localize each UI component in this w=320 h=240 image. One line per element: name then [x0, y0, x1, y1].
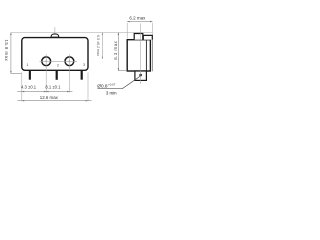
- side centerline: [139, 24, 141, 85]
- terminal hole annotation leader: [97, 76, 140, 89]
- outer thin lip line: [151, 40, 153, 72]
- svg-text:3: 3: [83, 63, 85, 67]
- free-position reference line: [11, 32, 153, 34]
- 6.2 extension left: [126, 23, 128, 39]
- body right edge extension: [87, 72, 89, 101]
- overall height dimension line (left): [11, 33, 22, 74]
- plunger (front view): [51, 34, 59, 37]
- svg-text:12.6 max: 12.6 max: [40, 95, 59, 100]
- switch body (front view): [22, 38, 88, 71]
- tick arrows at 44.3: [44, 91, 46, 93]
- hole 1 center dot: [46, 61, 47, 62]
- mounting hole 2: [65, 57, 74, 66]
- overall width dimension line: [18, 100, 92, 102]
- hole 1 extension line: [45, 54, 47, 92]
- side height dimension: [118, 33, 127, 71]
- terminal hole dot: [139, 74, 142, 77]
- 6.2 extension right: [151, 23, 153, 35]
- hole horizontal centerline: [40, 60, 78, 62]
- svg-text:1: 1: [27, 63, 29, 67]
- side plunger: [134, 34, 143, 40]
- side body: [127, 40, 150, 71]
- body left edge extension: [21, 72, 23, 101]
- svg-text:4.3 ±0.1: 4.3 ±0.1: [21, 85, 37, 90]
- hole spacing dimension line: [17, 91, 72, 93]
- svg-text:3 min: 3 min: [106, 91, 117, 96]
- svg-text:8.1 ±0.1: 8.1 ±0.1: [45, 85, 61, 90]
- svg-text:6.5 ±0.2 max: 6.5 ±0.2 max: [96, 35, 100, 56]
- terminal leg 1: [29, 70, 31, 79]
- svg-text:6.2 max: 6.2 max: [129, 15, 146, 20]
- top ridge: [143, 35, 152, 39]
- svg-text:15.8 max: 15.8 max: [4, 39, 9, 61]
- hole 2 center dot: [69, 61, 70, 62]
- free position dim line: [101, 33, 103, 60]
- dim arrow at 21.8: [22, 91, 24, 93]
- svg-text:6.3 max: 6.3 max: [113, 40, 118, 59]
- arrow at 65.7: [67, 91, 69, 93]
- side terminal: [135, 71, 147, 80]
- inner wall line: [145, 40, 147, 71]
- svg-text:2: 2: [57, 63, 59, 67]
- height dim arrows: [10, 33, 12, 36]
- plunger centerline: [54, 27, 56, 50]
- width arrows: [22, 100, 24, 102]
- terminal leg 2: [56, 70, 58, 80]
- svg-text:+0.07: +0.07: [108, 82, 116, 86]
- mounting hole 1: [42, 57, 51, 66]
- terminal leg 3: [81, 70, 83, 79]
- hole 2 extension line: [68, 54, 70, 92]
- 6.2 dim line: [127, 21, 152, 23]
- svg-text:Ø0.8: Ø0.8: [97, 84, 108, 89]
